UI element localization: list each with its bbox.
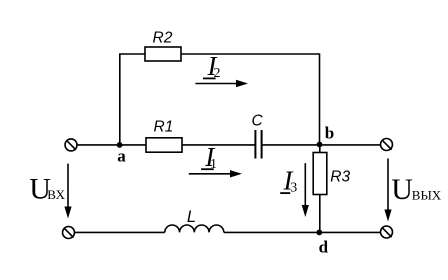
svg-text:d: d — [319, 237, 329, 256]
current I3 arrow — [302, 163, 309, 217]
bottom wire left segment to inductor — [75, 231, 165, 233]
wire R1 to capacitor — [182, 144, 255, 146]
wire node a up to top branch — [119, 54, 121, 145]
svg-text:3: 3 — [290, 181, 297, 196]
node b — [317, 142, 323, 148]
svg-text:a: a — [117, 146, 126, 165]
svg-text:C: C — [252, 112, 264, 129]
resistor R3 — [313, 153, 327, 195]
wire from input terminal to node a and R1 — [77, 144, 146, 146]
current I3 label — [280, 166, 297, 196]
current I2 arrow — [195, 80, 248, 87]
svg-text:ВХ: ВХ — [47, 187, 65, 202]
current I1 arrow — [189, 170, 242, 177]
voltage U_vyx arrow — [384, 159, 391, 222]
svg-text:b: b — [325, 124, 334, 143]
svg-text:L: L — [187, 208, 196, 226]
wire R3 down to node d — [319, 195, 321, 233]
wire right vertical down to node b — [319, 54, 321, 145]
svg-text:ВЫХ: ВЫХ — [412, 187, 442, 202]
voltage U_vyx label — [391, 173, 442, 206]
capacitor C — [255, 130, 261, 159]
voltage U_vx arrow — [64, 164, 71, 219]
terminal input top-left — [65, 139, 77, 151]
top wire left segment to R2 — [119, 53, 145, 55]
voltage U_vx label — [29, 173, 65, 206]
resistor R1 — [146, 138, 182, 152]
inductor L — [165, 225, 224, 232]
svg-text:R2: R2 — [153, 29, 173, 46]
terminal output bottom-right — [381, 226, 393, 238]
resistor R2 — [145, 47, 181, 61]
top wire right segment from R2 to right vertical — [181, 53, 320, 55]
wire node b down to R3 — [319, 145, 321, 153]
current I1 label — [201, 142, 217, 172]
terminal input bottom-left — [63, 227, 75, 239]
svg-text:U: U — [391, 173, 413, 206]
wire capacitor to node b and output terminal — [262, 144, 381, 146]
svg-text:R1: R1 — [154, 118, 174, 135]
bottom wire right segment from inductor to node d and output terminal — [224, 231, 380, 233]
terminal output top-right — [381, 139, 393, 151]
node d — [316, 230, 322, 236]
current I2 label — [203, 51, 221, 81]
node a — [117, 142, 123, 148]
svg-text:R3: R3 — [330, 168, 350, 185]
